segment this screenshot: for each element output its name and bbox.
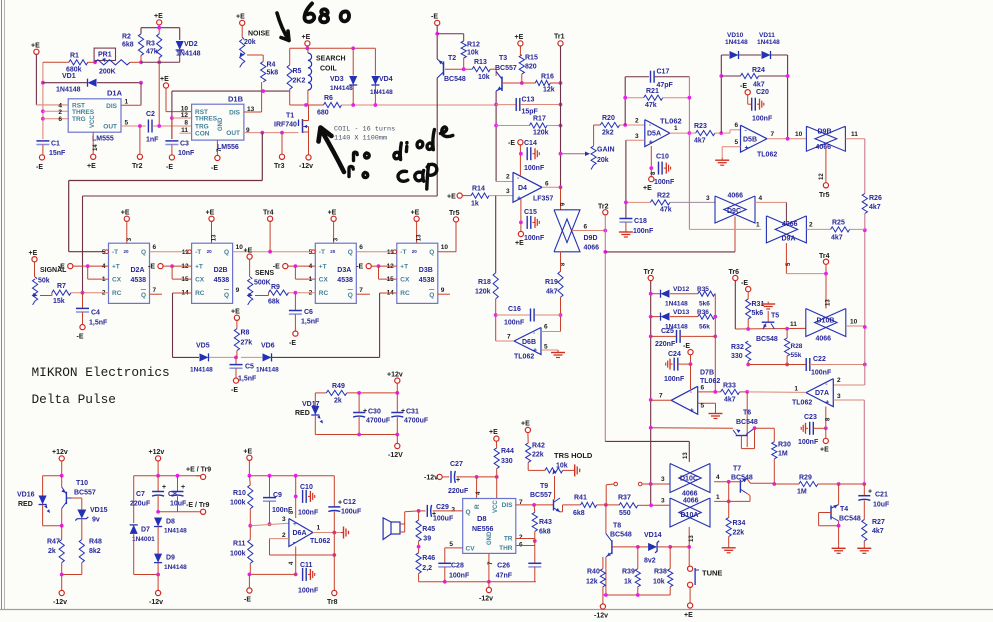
switch D10A 4066 bbox=[670, 498, 701, 527]
svg-text:220uF: 220uF bbox=[130, 501, 151, 508]
resistor R11 bbox=[248, 540, 253, 564]
coil frame top wire bbox=[290, 47, 376, 49]
wire T3 collector down to D4 bbox=[495, 91, 497, 182]
svg-text:100nF: 100nF bbox=[633, 228, 654, 235]
svg-text:C9: C9 bbox=[273, 492, 282, 499]
svg-text:-E: -E bbox=[231, 387, 238, 394]
svg-text:BC548: BC548 bbox=[736, 419, 758, 426]
wire pin2 feedback bbox=[270, 538, 289, 540]
svg-text:C27: C27 bbox=[450, 461, 463, 468]
svg-text:Q: Q bbox=[224, 292, 229, 299]
ground D6B bbox=[557, 350, 559, 353]
svg-text:TL062: TL062 bbox=[757, 152, 777, 159]
svg-text:10k: 10k bbox=[556, 463, 568, 470]
junction R39 top bbox=[636, 545, 640, 549]
svg-text:R25: R25 bbox=[832, 220, 845, 227]
svg-text:-E / Tr9: -E / Tr9 bbox=[186, 502, 209, 509]
svg-text:R36: R36 bbox=[697, 309, 709, 316]
svg-text:CX: CX bbox=[319, 277, 329, 284]
svg-text:TL062: TL062 bbox=[792, 400, 812, 407]
junction R20/C17 bbox=[623, 123, 627, 127]
junction T4 collector bbox=[837, 482, 841, 486]
svg-text:+E: +E bbox=[243, 448, 252, 455]
wire D4 out down to D9D bbox=[560, 187, 562, 209]
junction R12 top bbox=[435, 32, 439, 36]
svg-text:+E: +E bbox=[236, 13, 245, 20]
svg-text:4: 4 bbox=[309, 263, 313, 270]
resistor R14 bbox=[462, 195, 471, 197]
svg-text:Tr4: Tr4 bbox=[263, 209, 274, 216]
svg-text:5: 5 bbox=[701, 403, 705, 410]
handwritten 680 bbox=[305, 4, 350, 23]
svg-text:47pF: 47pF bbox=[657, 82, 674, 89]
svg-text:-12v: -12v bbox=[479, 596, 493, 603]
svg-text:TUNE: TUNE bbox=[702, 569, 722, 578]
svg-text:R28: R28 bbox=[791, 343, 803, 350]
junction VD1/R2col bbox=[139, 81, 143, 85]
terminal -12v below T1 bbox=[306, 155, 311, 160]
svg-text:4: 4 bbox=[102, 263, 106, 270]
svg-text:T5: T5 bbox=[771, 313, 779, 320]
svg-text:T3: T3 bbox=[499, 55, 507, 62]
svg-text:R1: R1 bbox=[70, 53, 79, 60]
ground TRS bbox=[572, 469, 575, 471]
diode VD3 bbox=[352, 48, 354, 75]
svg-text:VD6: VD6 bbox=[261, 343, 275, 350]
svg-text:-E: -E bbox=[166, 164, 173, 171]
wire T3 emitter row to R15/R16 bbox=[502, 82, 522, 84]
svg-text:+T: +T bbox=[319, 264, 327, 271]
wire T7 base from D10C out bbox=[714, 481, 740, 483]
bottom rail VD17 supply bbox=[315, 434, 397, 436]
T4 base loop bbox=[819, 512, 831, 514]
coil frame left wire bbox=[289, 48, 291, 65]
bottom rail T8 bbox=[603, 594, 670, 596]
svg-text:2k: 2k bbox=[48, 548, 56, 555]
svg-text:5: 5 bbox=[544, 344, 548, 351]
switch D9A 4066 bbox=[766, 216, 797, 243]
junction C14 bbox=[519, 152, 523, 156]
wire R20 from GAIN pot top bbox=[594, 124, 601, 126]
svg-text:C4: C4 bbox=[91, 310, 100, 317]
svg-text:1140 X 1100mm: 1140 X 1100mm bbox=[334, 135, 387, 143]
svg-text:R49: R49 bbox=[332, 383, 345, 390]
svg-text:Q: Q bbox=[466, 509, 471, 516]
svg-text:3: 3 bbox=[661, 476, 665, 483]
svg-text:-E: -E bbox=[431, 13, 438, 20]
svg-text:+: + bbox=[293, 521, 297, 528]
svg-text:NOISE: NOISE bbox=[248, 31, 270, 38]
svg-text:C24: C24 bbox=[668, 351, 681, 358]
svg-text:Q: Q bbox=[224, 249, 229, 256]
wire D5B pin5 ground bbox=[722, 146, 740, 148]
resistor R3 bbox=[157, 34, 162, 58]
switch D10C 4066 bbox=[670, 464, 701, 493]
svg-text:DIS: DIS bbox=[502, 502, 514, 509]
left branch D7 bbox=[133, 476, 135, 523]
svg-text:T7: T7 bbox=[733, 466, 741, 473]
svg-text:1: 1 bbox=[317, 525, 321, 532]
svg-text:4066: 4066 bbox=[816, 336, 832, 343]
svg-text:330: 330 bbox=[731, 353, 743, 360]
svg-text:10uF: 10uF bbox=[873, 502, 890, 509]
svg-text:12: 12 bbox=[181, 263, 189, 270]
svg-text:-12v: -12v bbox=[299, 163, 313, 170]
resistor R33 bbox=[715, 391, 720, 393]
svg-text:1N4148: 1N4148 bbox=[176, 51, 201, 58]
resistor R16 bbox=[522, 82, 536, 84]
terminal -12V bbox=[396, 435, 398, 444]
junction R30 bottom bbox=[772, 482, 776, 486]
terminal +12v supply bbox=[156, 456, 161, 461]
resistor R49 bbox=[315, 392, 326, 394]
wire R33 to D7A out bbox=[747, 391, 806, 394]
transistor T6 BC548 bbox=[736, 429, 740, 433]
svg-text:T10: T10 bbox=[76, 480, 88, 487]
node column left of D1A bbox=[42, 62, 44, 139]
svg-text:C2: C2 bbox=[146, 111, 155, 118]
terminal -E below C5 bbox=[233, 378, 238, 383]
svg-text:BC548: BC548 bbox=[756, 336, 778, 343]
svg-text:D8: D8 bbox=[166, 519, 175, 526]
svg-text:100nF: 100nF bbox=[811, 370, 832, 377]
wire OUT9 to T1 gate bbox=[244, 132, 299, 134]
resistor R21 bbox=[625, 97, 644, 99]
junction OUT/Tr2 bbox=[138, 124, 142, 128]
svg-text:D4: D4 bbox=[518, 185, 527, 192]
resistor R41 bbox=[563, 504, 581, 506]
svg-text:R27: R27 bbox=[872, 519, 885, 526]
svg-text:-E: -E bbox=[683, 343, 690, 350]
svg-text:-E: -E bbox=[289, 340, 296, 347]
svg-text:-E: -E bbox=[244, 597, 251, 604]
svg-text:RC: RC bbox=[400, 290, 410, 297]
svg-text:+: + bbox=[745, 145, 749, 152]
switch TUNE bbox=[688, 566, 693, 571]
wire D4 output to Tr1 node bbox=[542, 186, 561, 188]
capacitor C6 bbox=[294, 293, 296, 311]
svg-text:+: + bbox=[690, 407, 694, 414]
svg-text:220nF: 220nF bbox=[655, 341, 676, 348]
terminal Tr8 bbox=[332, 590, 337, 595]
svg-text:3: 3 bbox=[451, 506, 455, 513]
svg-text:-E: -E bbox=[508, 140, 515, 147]
svg-text:R43: R43 bbox=[539, 519, 552, 526]
svg-text:2: 2 bbox=[58, 109, 62, 116]
svg-text:9: 9 bbox=[236, 287, 240, 294]
svg-text:100nF: 100nF bbox=[298, 510, 319, 517]
speaker wires bbox=[400, 523, 405, 525]
wire T7 emitter bbox=[747, 494, 750, 496]
capacitor C10 D5A supply bbox=[650, 146, 652, 176]
capacitor C21 bbox=[863, 484, 865, 496]
svg-text:T8: T8 bbox=[613, 523, 621, 530]
junction R28 top bbox=[785, 327, 789, 331]
svg-text:C6: C6 bbox=[304, 309, 313, 316]
svg-text:VD16: VD16 bbox=[17, 492, 35, 499]
wire D3A.Q to D3B bbox=[356, 251, 393, 253]
svg-text:-12v: -12v bbox=[424, 475, 438, 482]
svg-text:VCC: VCC bbox=[90, 115, 96, 128]
pin CON stub bbox=[180, 132, 192, 134]
svg-text:10nF: 10nF bbox=[178, 150, 195, 157]
svg-text:27k: 27k bbox=[241, 340, 253, 347]
svg-text:C28: C28 bbox=[451, 563, 464, 570]
svg-text:D2A: D2A bbox=[131, 267, 145, 274]
wire D2A.Q to D2B bbox=[150, 251, 188, 253]
svg-text:D7A: D7A bbox=[815, 390, 829, 397]
IC D2B 4538 bbox=[192, 243, 233, 303]
wire D6B pin5 to ground bbox=[541, 349, 558, 351]
resistor R5 bbox=[287, 65, 292, 89]
IC D8 NE556 bbox=[463, 499, 516, 554]
junction R17/Tr1 bbox=[559, 124, 563, 128]
svg-text:COIL - 16 turns: COIL - 16 turns bbox=[334, 126, 395, 134]
wire PR1 to node bbox=[130, 61, 141, 63]
junction R24 right bbox=[786, 74, 790, 78]
capacitor C3 bbox=[171, 118, 173, 139]
svg-text:T9: T9 bbox=[540, 483, 548, 490]
potentiometer SENS 500K bbox=[247, 254, 252, 259]
wire -E/Tr9 row bbox=[158, 511, 200, 513]
svg-text:C18: C18 bbox=[634, 218, 647, 225]
junction R1/PR1 bbox=[93, 60, 97, 64]
wire D9C control bbox=[734, 217, 736, 233]
diode VD6 bbox=[241, 356, 262, 358]
handwritten no diode bbox=[354, 127, 453, 161]
diode VD11 bbox=[762, 51, 771, 59]
wire T9 collector to TRS pot bbox=[554, 476, 556, 499]
svg-text:120k: 120k bbox=[533, 130, 549, 137]
switch D9C 4066 bbox=[715, 196, 746, 223]
svg-text:PR1: PR1 bbox=[98, 52, 112, 59]
svg-text:1N4148: 1N4148 bbox=[164, 564, 187, 571]
svg-text:C12: C12 bbox=[343, 499, 356, 506]
wire D10A control bbox=[688, 527, 690, 547]
svg-text:+: + bbox=[456, 477, 460, 484]
resistor R8 bbox=[234, 315, 239, 320]
terminal +E above R2R3 bbox=[157, 20, 162, 25]
svg-text:BC557: BC557 bbox=[530, 492, 552, 499]
resistor R34 bbox=[726, 518, 731, 537]
wire GAIN row bbox=[561, 153, 587, 155]
junction T10 top bbox=[60, 474, 64, 478]
junction R9/C6 bbox=[294, 291, 298, 295]
svg-text:Q: Q bbox=[141, 249, 146, 256]
svg-text:R34: R34 bbox=[733, 520, 746, 527]
wire OUT row and C2 bbox=[121, 125, 146, 127]
svg-text:47k: 47k bbox=[645, 102, 657, 109]
svg-text:100nF: 100nF bbox=[524, 235, 545, 242]
svg-text:R12: R12 bbox=[467, 42, 480, 49]
svg-text:1M: 1M bbox=[778, 451, 788, 458]
diode VD2 bbox=[176, 41, 184, 50]
wire VD16 bottom to junction bbox=[43, 525, 62, 527]
junction D7B out bbox=[649, 398, 653, 402]
terminal +E R44 bbox=[494, 436, 499, 441]
wire D5A out to D9A pin1 bbox=[688, 133, 690, 229]
svg-text:120k: 120k bbox=[475, 289, 491, 296]
wire bus to T6 bbox=[651, 427, 733, 429]
svg-text:20: 20 bbox=[330, 249, 336, 254]
svg-text:47k: 47k bbox=[146, 49, 158, 56]
svg-text:1N4148: 1N4148 bbox=[757, 39, 780, 46]
svg-text:1N4148: 1N4148 bbox=[256, 367, 279, 374]
svg-text:1: 1 bbox=[756, 222, 760, 229]
svg-text:3: 3 bbox=[506, 188, 510, 195]
page border bottom bbox=[0, 609, 993, 611]
svg-text:3: 3 bbox=[706, 195, 710, 202]
wire D9B out to R26 column bbox=[845, 138, 864, 140]
svg-text:D1A: D1A bbox=[107, 89, 123, 98]
svg-text:1N4148: 1N4148 bbox=[665, 301, 688, 308]
terminal -E D6A bbox=[248, 574, 250, 588]
terminal -12v T8 bbox=[602, 595, 604, 604]
svg-text:10: 10 bbox=[850, 319, 858, 326]
svg-text:+T: +T bbox=[400, 264, 408, 271]
resistor R37 bbox=[604, 503, 608, 507]
junction feedback bbox=[332, 553, 336, 557]
wire T8 base row bbox=[613, 546, 638, 548]
svg-text:C22: C22 bbox=[813, 356, 826, 363]
junction R23/R24col bbox=[719, 131, 723, 135]
svg-text:2: 2 bbox=[809, 222, 813, 229]
wire Tr2 to D9C control bbox=[605, 251, 735, 253]
resistor R17 bbox=[496, 125, 529, 127]
junction R24 left bbox=[719, 74, 723, 78]
junction R21 right bbox=[688, 96, 692, 100]
terminal +E above D1B bbox=[163, 83, 168, 88]
svg-text:4538: 4538 bbox=[419, 277, 435, 284]
pin5 input circle D2A bbox=[105, 250, 109, 254]
svg-text:R6: R6 bbox=[324, 95, 333, 102]
svg-text:100nF: 100nF bbox=[654, 179, 675, 186]
svg-text:C13: C13 bbox=[522, 97, 535, 104]
junction T4 emitter bbox=[837, 524, 841, 528]
svg-text:Tr2: Tr2 bbox=[598, 204, 609, 211]
svg-text:R24: R24 bbox=[752, 67, 765, 74]
svg-text:Delta Pulse: Delta Pulse bbox=[32, 392, 116, 407]
svg-text:R40: R40 bbox=[587, 569, 600, 576]
svg-text:LF357: LF357 bbox=[533, 196, 553, 203]
svg-text:6k8: 6k8 bbox=[539, 529, 551, 536]
junction C31 top bbox=[395, 391, 399, 395]
wire DIS13 to R4 column bbox=[244, 111, 262, 113]
svg-text:200K: 200K bbox=[99, 69, 116, 76]
svg-text:TL062: TL062 bbox=[310, 538, 330, 545]
svg-text:R46: R46 bbox=[422, 555, 435, 562]
svg-text:C31: C31 bbox=[406, 409, 419, 416]
junction C7 bottom bbox=[156, 510, 160, 514]
svg-text:1: 1 bbox=[716, 494, 720, 501]
svg-text:D7: D7 bbox=[141, 527, 150, 534]
wire D9C out bbox=[755, 201, 786, 203]
diode VD5 bbox=[200, 353, 209, 361]
svg-text:6: 6 bbox=[735, 122, 739, 129]
svg-text:R2: R2 bbox=[122, 34, 131, 41]
svg-text:D1B: D1B bbox=[228, 95, 244, 104]
svg-text:12k: 12k bbox=[586, 579, 598, 586]
Qbar stub D3A bbox=[356, 293, 370, 295]
svg-text:+: + bbox=[868, 488, 872, 495]
feedback column VD10/R24 bbox=[720, 55, 722, 133]
svg-text:20k: 20k bbox=[244, 39, 256, 46]
svg-text:4538: 4538 bbox=[214, 277, 230, 284]
svg-text:VD15: VD15 bbox=[90, 507, 108, 514]
wire D9D control to Tr2 bbox=[572, 230, 605, 232]
junction C16 right bbox=[559, 313, 563, 317]
junction VD3 top bbox=[351, 46, 355, 50]
svg-text:Q: Q bbox=[429, 249, 434, 256]
svg-text:RC: RC bbox=[319, 290, 329, 297]
wire TRG stub bbox=[43, 118, 68, 120]
svg-text:-T: -T bbox=[319, 249, 325, 256]
junction D5B out bbox=[786, 137, 790, 141]
svg-text:-E: -E bbox=[356, 264, 363, 271]
junction R37 right bbox=[649, 503, 653, 507]
wire T7 collector bbox=[747, 479, 751, 484]
wire pin3 D5A bbox=[626, 139, 645, 141]
resistor R23 bbox=[696, 131, 715, 136]
svg-text:+E: +E bbox=[521, 421, 530, 428]
svg-text:14: 14 bbox=[93, 144, 99, 151]
svg-text:+: + bbox=[162, 484, 166, 491]
svg-text:15k: 15k bbox=[53, 298, 65, 305]
svg-text:4k7: 4k7 bbox=[872, 528, 884, 535]
svg-text:15: 15 bbox=[387, 276, 395, 283]
junction C22 right bbox=[863, 363, 867, 367]
terminal -12v T10 bbox=[61, 575, 63, 591]
svg-text:2: 2 bbox=[519, 534, 523, 541]
ground R34 bbox=[728, 545, 730, 548]
svg-text:C3: C3 bbox=[180, 141, 189, 148]
svg-text:THR: THR bbox=[499, 545, 513, 552]
ground R27 bbox=[863, 546, 865, 549]
svg-text:1N4148: 1N4148 bbox=[330, 85, 353, 92]
ground D5B pin5 bbox=[721, 158, 723, 161]
svg-text:R32: R32 bbox=[731, 344, 744, 351]
terminal -12v 556 bbox=[488, 582, 490, 588]
Qbar stub D2A bbox=[150, 293, 163, 295]
svg-text:500K: 500K bbox=[254, 279, 271, 286]
svg-text:5: 5 bbox=[735, 139, 739, 146]
svg-text:10: 10 bbox=[795, 131, 803, 138]
wire R2col to DIS bbox=[140, 83, 142, 106]
svg-text:D3A: D3A bbox=[337, 267, 351, 274]
svg-text:CX: CX bbox=[195, 277, 205, 284]
svg-text:R29: R29 bbox=[799, 475, 812, 482]
svg-text:C10: C10 bbox=[300, 484, 313, 491]
svg-text:+12v: +12v bbox=[387, 372, 403, 379]
svg-text:1N4148: 1N4148 bbox=[164, 528, 187, 535]
svg-text:D3B: D3B bbox=[419, 267, 433, 274]
svg-text:C26: C26 bbox=[497, 563, 510, 570]
Qbar stub D3B bbox=[438, 293, 450, 295]
svg-text:-T: -T bbox=[195, 249, 201, 256]
resistor R20 bbox=[600, 122, 619, 127]
input network D3B -E bbox=[366, 264, 371, 269]
wire D6B pin6 bbox=[541, 331, 561, 333]
svg-text:R5: R5 bbox=[293, 68, 302, 75]
svg-text:R22: R22 bbox=[657, 193, 670, 200]
svg-text:-12v: -12v bbox=[594, 613, 608, 620]
wire D10C pin3 bbox=[651, 483, 670, 485]
IC D3B 4538 bbox=[397, 243, 438, 303]
potentiometer NOISE 20k bbox=[242, 37, 244, 39]
svg-text:C29: C29 bbox=[436, 504, 449, 511]
svg-text:R15: R15 bbox=[525, 55, 538, 62]
svg-text:68k: 68k bbox=[268, 299, 280, 306]
